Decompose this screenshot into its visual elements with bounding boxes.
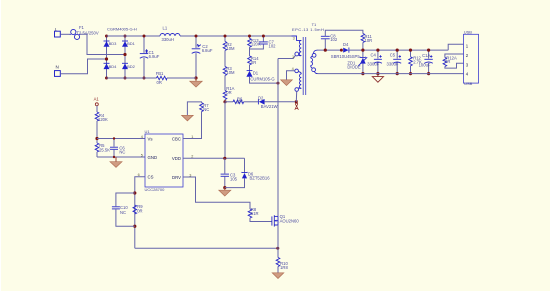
resistor R5 [95,143,110,153]
wire drain vertical [277,59,279,217]
zener ZD1 [347,49,367,76]
ground primary at C2 [190,78,202,87]
svg-text:BD1: BD1 [127,41,136,46]
resistor R13 [248,35,261,48]
wire fuse to bridge row A [80,34,125,54]
svg-text:BZT52B16: BZT52B16 [250,175,271,180]
svg-text:BD2: BD2 [127,64,136,69]
svg-text:0R: 0R [157,80,162,85]
svg-text:UCC28700: UCC28700 [145,187,166,192]
resistor R1A [223,86,234,100]
wire secondary rail after D4 [349,49,448,51]
transformer aux winding [295,69,301,91]
resistor R7 [200,103,210,113]
wire R7 to gnd [187,102,201,115]
capacitor C3 [221,158,238,187]
capacitor C7 [259,35,276,50]
svg-text:T1: T1 [312,22,317,27]
resistor FB1 [156,71,167,85]
svg-text:SBR10U45SP5: SBR10U45SP5 [331,54,361,59]
ground primary at IC [110,157,122,167]
resistor R10 [276,258,288,271]
svg-text:CURM105-G: CURM105-G [250,76,274,81]
wire secondary bottom rail [318,73,464,75]
svg-text:GND: GND [148,155,158,160]
wire source to R10 [277,225,279,258]
svg-text:102: 102 [269,44,277,49]
capacitor C1 [140,35,160,80]
node VDD cap junction [223,157,226,160]
node CS upper junction [133,191,136,194]
svg-text:51R: 51R [251,211,259,216]
wire CS rail to mosfet source [135,247,278,249]
svg-text:330uH: 330uH [162,37,174,42]
resistor R4 [95,112,108,122]
svg-text:NC: NC [120,210,126,215]
svg-text:6.8uF: 6.8uF [202,48,213,53]
wire R14 to D1 [249,65,251,71]
wire R4 to Vs [96,121,98,143]
wire top rail left [107,35,161,37]
svg-text:D2: D2 [258,96,264,101]
wire N to bridge row B [60,59,106,74]
svg-text:10M: 10M [226,46,235,51]
svg-text:6.8uF: 6.8uF [149,54,160,59]
node source junction [276,247,279,250]
svg-text:25.5K: 25.5K [99,148,110,153]
svg-text:105: 105 [230,176,238,181]
svg-text:D1: D1 [253,71,259,76]
transformer primary winding [292,36,302,56]
node C3 gnd junction [223,186,226,189]
svg-text:330uF: 330uF [367,62,379,67]
svg-text:BD4: BD4 [109,64,118,69]
wire bridge right column [124,36,126,78]
capacitor C6 [110,137,125,158]
svg-text:102: 102 [330,37,338,42]
svg-text:N: N [56,65,59,70]
wire bottom rail right [167,77,196,79]
capacitor C10 [112,193,135,226]
resistor R8 [248,207,258,218]
wire startup to VDD [224,102,226,159]
svg-text:VDD: VDD [172,156,181,161]
wire R10 to gnd [277,267,279,273]
svg-text:5: 5 [141,153,143,157]
node drain snubber junction [277,82,280,85]
wire secondary top rail [318,49,343,51]
svg-text:0R: 0R [137,208,142,213]
svg-text:0R: 0R [226,90,231,95]
svg-text:3: 3 [293,36,295,40]
wire R11 to rail [362,43,364,51]
wire RC to R14 [249,49,251,56]
ground primary at aux [281,80,293,86]
resistor R11 [361,34,372,43]
svg-text:L1: L1 [163,25,168,30]
node A1 [94,97,100,112]
wire rail to USB pin1 [448,44,463,50]
svg-text:0R: 0R [445,59,450,64]
svg-text:U1: U1 [145,129,151,134]
svg-text:1: 1 [292,55,294,59]
transformer secondary winding [311,50,318,74]
wire aux line left [225,101,233,103]
capacitor C4 [367,49,382,76]
svg-text:EPC-13 1.5mH: EPC-13 1.5mH [292,27,324,32]
wire aux bottom to net A [295,91,297,102]
connector USB [464,30,479,86]
node bridge junctions [105,35,127,80]
svg-text:C5: C5 [390,53,396,58]
wire gnd rail [97,156,145,158]
capacitor C5 [387,49,402,76]
wire D1 to drain [250,77,279,83]
svg-text:10M: 10M [226,70,235,75]
svg-text:C1A: C1A [422,53,430,58]
wire R5 to gnd rail [96,152,98,157]
ground primary at C3 [219,188,231,196]
svg-text:D4: D4 [343,42,349,47]
wire snubber RC join [250,47,264,49]
svg-text:Vs: Vs [148,136,153,141]
node A net junction [295,100,298,103]
capacitor C2 [192,35,213,80]
svg-text:A1: A1 [94,97,100,102]
svg-text:10R: 10R [365,38,373,43]
wire CS [135,177,145,249]
ground primary at R10 [272,273,284,279]
node VDD startup junction [223,100,226,103]
inductor L1 [160,25,180,42]
resistor R12A loop [443,54,463,68]
wire bridge left column [106,36,108,78]
diode BD2 [122,63,136,69]
svg-text:BD3: BD3 [109,41,118,46]
wire DRV [183,177,250,209]
terminal N [55,65,61,77]
wire primary bottom to drain [278,55,295,58]
svg-text:NC: NC [119,149,125,154]
diode D2 BAV21W [258,96,278,110]
svg-text:F1: F1 [79,25,85,30]
node CS lower junction [133,225,136,228]
resistor R9 [133,204,143,214]
resistor R6 [233,96,244,105]
transformer T1 labels [292,22,324,32]
terminal L [55,27,61,37]
svg-text:330uF: 330uF [387,62,399,67]
svg-text:CBC: CBC [172,136,181,141]
fuse F1 [70,25,99,40]
wire R2-R3 [224,51,226,67]
ground primary at R7 [182,115,194,121]
wire D2 to aux pin [264,101,296,103]
node Vs divider junction [95,137,98,140]
resistor R12 [409,49,422,76]
resistor R3 [223,66,235,75]
diode D1 CURM105-G [246,71,274,82]
svg-text:CGRM4005-G-H: CGRM4005-G-H [107,27,137,32]
diode BD3 [104,41,118,47]
svg-text:USB: USB [464,30,473,35]
capacitor C8 [321,30,363,51]
net label A [295,103,299,110]
wire R6 to D2 [244,101,259,103]
svg-text:100uF: 100uF [419,62,431,67]
svg-text:T2.5A/250V: T2.5A/250V [77,31,99,36]
capacitor C1A [419,49,433,76]
svg-text:USB: USB [464,81,473,86]
svg-text:DIODE: DIODE [347,65,360,70]
transformer core [303,37,306,95]
svg-text:4: 4 [141,135,143,139]
transistor Q1 AOU2N60 [272,214,299,227]
diode D6 BZT52B16 [225,158,270,187]
svg-text:CS: CS [148,175,154,180]
wire top rail mid [180,35,292,37]
resistor R14 [248,56,260,65]
wire L to fuse [60,33,69,35]
diode D4 SBR10U45SP5 [331,42,361,59]
diode BD4 [104,63,118,69]
wire CBC [183,112,202,139]
wire gate [250,218,272,222]
wire bottom rail left [107,77,157,79]
svg-text:120K: 120K [98,117,108,122]
wire Vs [97,138,145,140]
wire R1A to aux node [224,100,226,102]
resistor R2 [223,35,235,51]
svg-text:C4: C4 [371,53,377,58]
svg-text:FB1: FB1 [156,71,164,76]
svg-text:AOU2N60: AOU2N60 [280,218,300,223]
svg-text:0R: 0R [251,60,256,65]
ground secondary [372,74,383,83]
wire VDD [183,157,245,159]
wire aux top to gnd [287,71,295,80]
svg-text:1R8: 1R8 [280,265,288,270]
diode BD1 [122,41,136,47]
svg-text:BAV21W: BAV21W [261,104,278,109]
svg-text:DRV: DRV [172,175,181,180]
svg-text:NC: NC [203,107,209,112]
op-amp U1 UCC28700 [138,129,194,192]
wire R3-R1A [224,76,226,91]
